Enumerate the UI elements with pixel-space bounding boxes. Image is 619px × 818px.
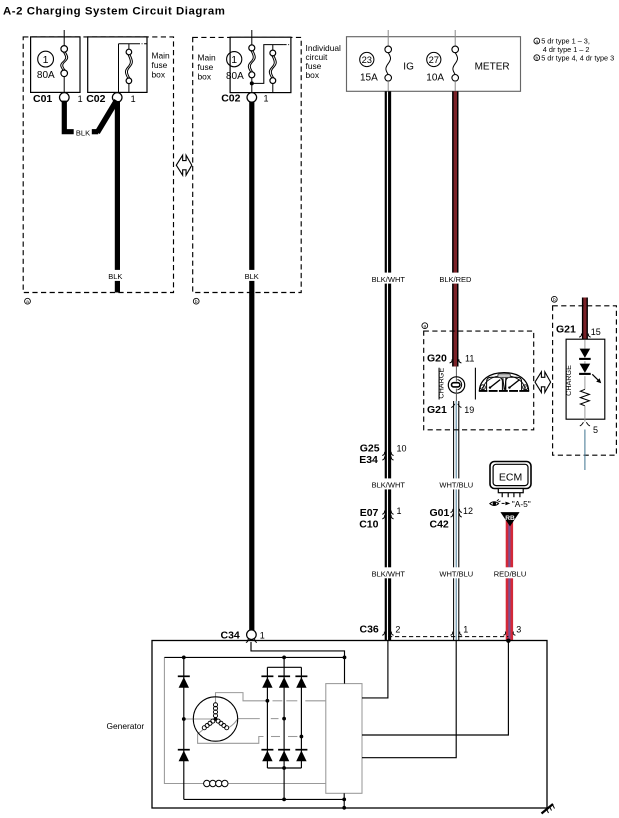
svg-text:G20: G20 <box>427 353 447 365</box>
svg-text:BLK/WHT: BLK/WHT <box>372 481 406 490</box>
svg-text:WHT/BLU: WHT/BLU <box>439 481 473 490</box>
svg-text:G21: G21 <box>556 323 576 335</box>
svg-text:10: 10 <box>397 444 407 454</box>
svg-text:80A: 80A <box>226 71 244 82</box>
svg-text:BLK/RED: BLK/RED <box>439 275 472 284</box>
svg-text:15A: 15A <box>360 72 378 83</box>
svg-text:C42: C42 <box>430 519 449 531</box>
svg-text:G21: G21 <box>427 404 447 416</box>
svg-text:G01: G01 <box>430 507 450 519</box>
svg-text:3: 3 <box>516 625 521 635</box>
svg-text:RB: RB <box>505 515 515 522</box>
svg-text:C02: C02 <box>86 93 105 105</box>
svg-text:5 dr type 4, 4 dr type 3: 5 dr type 4, 4 dr type 3 <box>541 53 614 62</box>
svg-text:1: 1 <box>260 630 265 640</box>
svg-text:15: 15 <box>591 327 601 337</box>
svg-text:C01: C01 <box>33 93 52 105</box>
svg-text:BLK: BLK <box>76 129 90 138</box>
svg-text:WHT/BLU: WHT/BLU <box>439 570 473 579</box>
svg-text:E07: E07 <box>360 507 379 519</box>
svg-text:19: 19 <box>464 405 474 415</box>
svg-text:box: box <box>152 70 166 80</box>
svg-text:a: a <box>423 325 426 330</box>
svg-text:1: 1 <box>231 54 237 66</box>
svg-text:C02: C02 <box>221 92 240 104</box>
svg-text:1: 1 <box>463 625 468 635</box>
svg-text:27: 27 <box>429 54 439 65</box>
svg-text:a: a <box>535 40 538 45</box>
svg-text:b: b <box>195 299 198 305</box>
svg-text:G25: G25 <box>360 443 380 455</box>
svg-text:1: 1 <box>78 94 83 104</box>
svg-text:1: 1 <box>131 94 136 104</box>
svg-text:12: 12 <box>463 506 473 516</box>
svg-text:2: 2 <box>395 625 400 635</box>
svg-text:CHARGE: CHARGE <box>437 368 446 399</box>
svg-text:fuse: fuse <box>152 60 168 70</box>
svg-text:BLK: BLK <box>245 272 259 281</box>
svg-text:"A-5": "A-5" <box>512 499 531 509</box>
svg-text:box: box <box>198 72 212 82</box>
svg-text:80A: 80A <box>37 70 55 81</box>
svg-text:BLK: BLK <box>108 272 122 281</box>
svg-text:CHARGE: CHARGE <box>564 365 573 396</box>
svg-text:1: 1 <box>397 506 402 516</box>
svg-text:Generator: Generator <box>107 721 145 731</box>
svg-text:Main: Main <box>152 51 170 61</box>
svg-text:METER: METER <box>475 62 510 73</box>
svg-text:A-2 Charging System Circuit Di: A-2 Charging System Circuit Diagram <box>3 6 225 18</box>
svg-text:C36: C36 <box>360 624 379 636</box>
svg-text:RED/BLU: RED/BLU <box>494 570 527 579</box>
svg-text:BLK/WHT: BLK/WHT <box>372 570 406 579</box>
svg-text:IG: IG <box>403 62 414 73</box>
svg-text:fuse: fuse <box>198 62 214 72</box>
svg-text:1: 1 <box>43 54 49 66</box>
svg-text:a: a <box>26 300 29 305</box>
svg-text:23: 23 <box>362 54 372 65</box>
svg-text:box: box <box>306 70 320 80</box>
svg-text:11: 11 <box>465 354 474 364</box>
svg-text:1: 1 <box>264 93 269 103</box>
svg-text:Main: Main <box>198 53 216 63</box>
svg-text:b: b <box>535 56 538 62</box>
svg-text:b: b <box>553 297 556 303</box>
svg-text:10A: 10A <box>426 72 444 83</box>
svg-text:5: 5 <box>593 425 598 435</box>
svg-text:C10: C10 <box>359 519 378 531</box>
svg-text:ECM: ECM <box>499 471 522 483</box>
svg-text:C34: C34 <box>221 629 240 641</box>
svg-text:E34: E34 <box>359 454 378 466</box>
svg-text:BLK/WHT: BLK/WHT <box>372 275 406 284</box>
